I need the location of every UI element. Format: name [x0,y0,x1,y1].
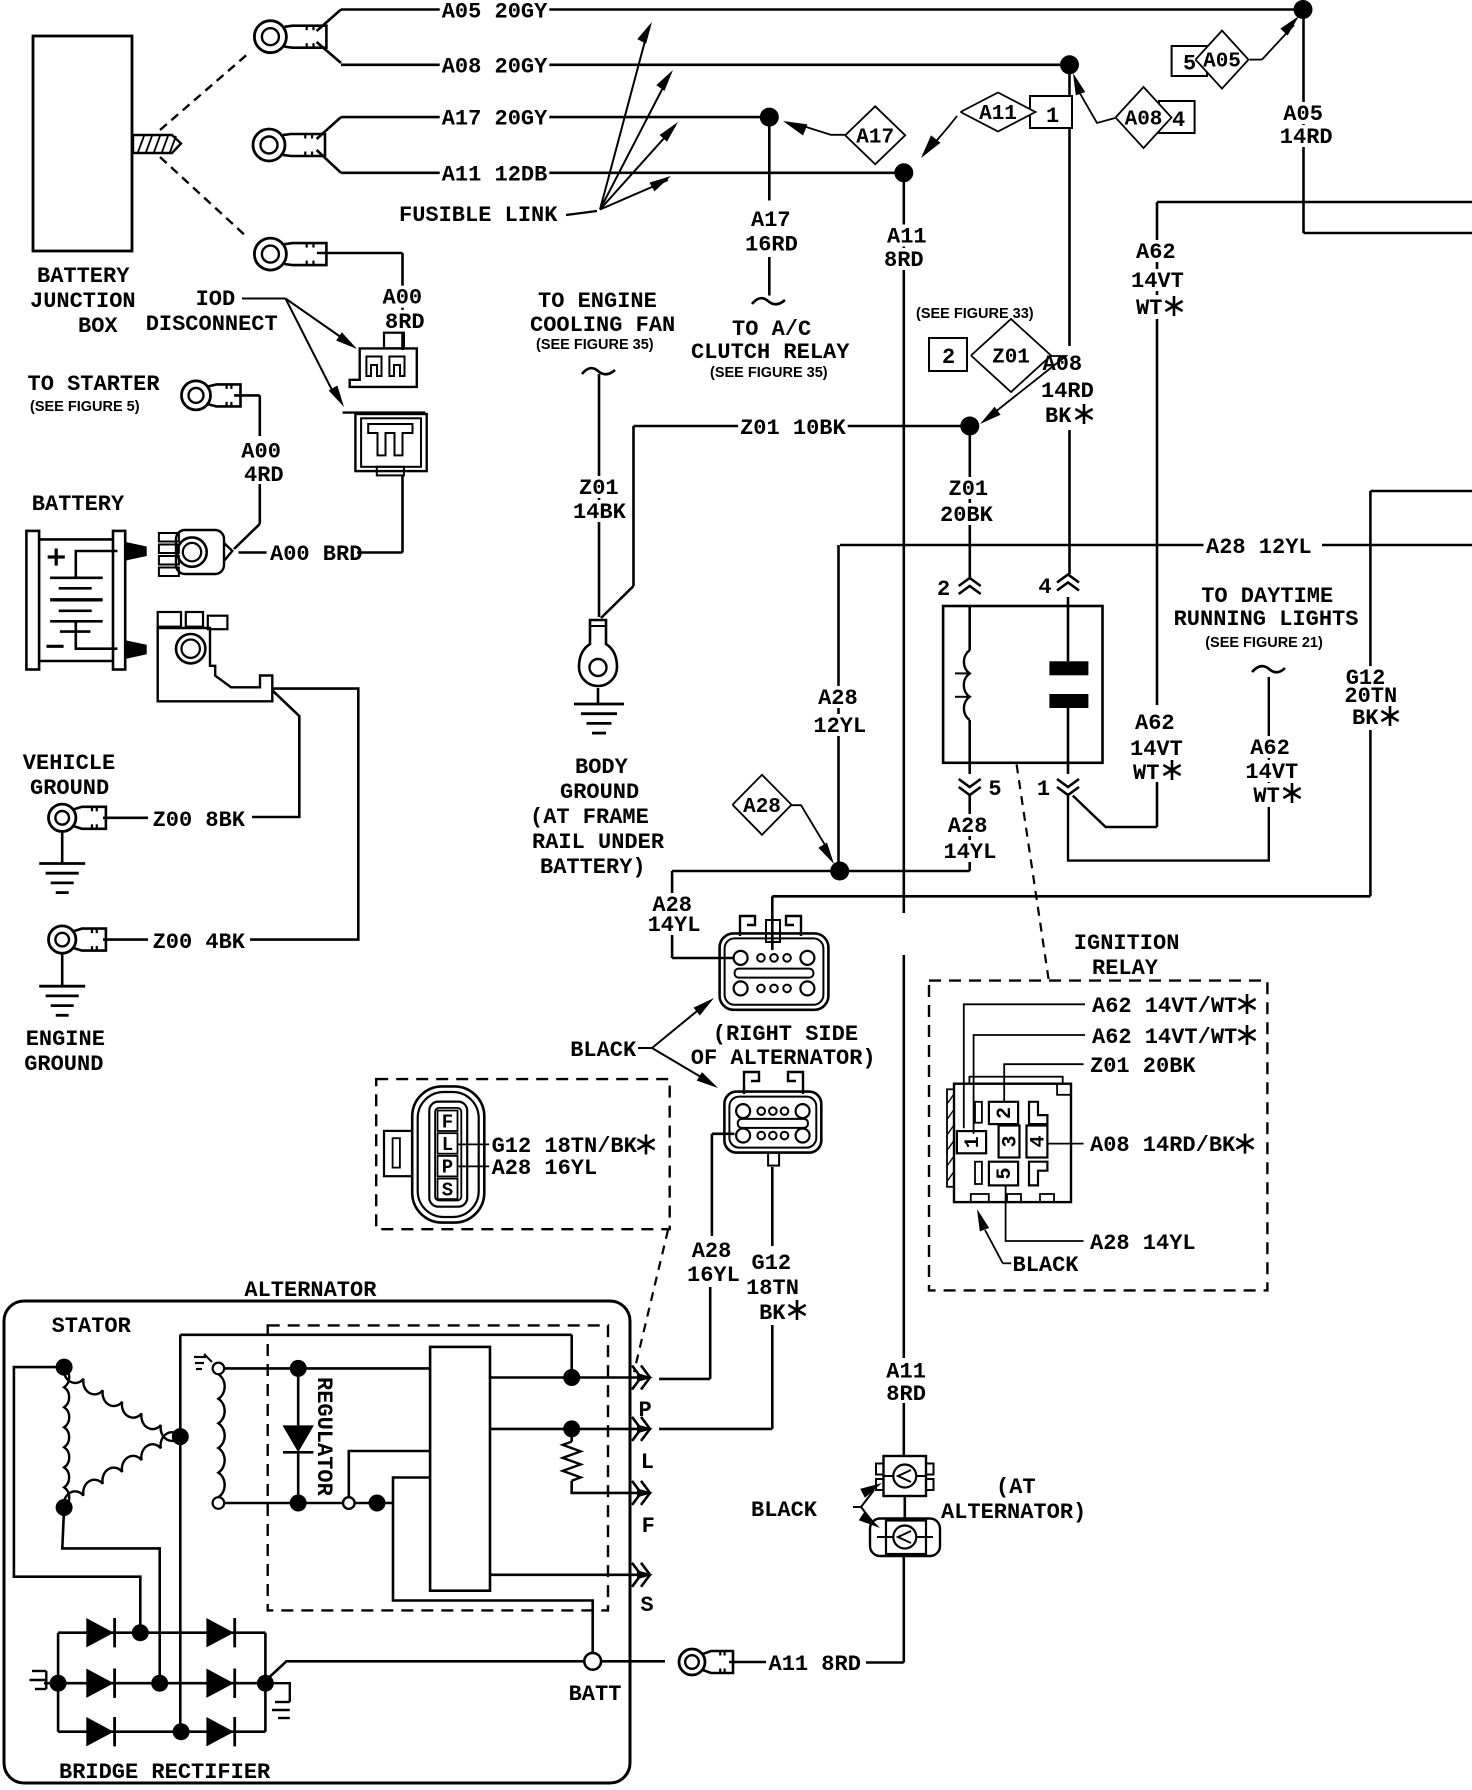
svg-text:STATOR: STATOR [52,1314,132,1339]
svg-text:4RD: 4RD [244,463,284,488]
svg-text:20BK: 20BK [940,503,994,528]
svg-text:TO STARTER: TO STARTER [28,372,161,397]
svg-text:A08: A08 [1043,352,1083,377]
svg-text:A00: A00 [241,440,281,465]
svg-text:(SEE FIGURE 33): (SEE FIGURE 33) [916,306,1034,322]
svg-text:L: L [641,1450,654,1475]
svg-text:BK: BK [759,1301,786,1326]
svg-text:16YL: 16YL [687,1263,740,1288]
svg-text:18TN: 18TN [746,1276,799,1301]
svg-text:14YL: 14YL [648,913,701,938]
svg-text:RELAY: RELAY [1092,956,1159,981]
svg-text:4: 4 [1028,1135,1051,1147]
svg-text:WT: WT [1136,296,1162,321]
svg-text:TO A/C: TO A/C [732,317,811,342]
svg-text:(AT FRAME: (AT FRAME [530,805,649,830]
svg-text:Z01 20BK: Z01 20BK [1090,1054,1196,1079]
svg-text:2: 2 [942,345,955,370]
svg-text:A08 20GY: A08 20GY [442,54,548,79]
svg-text:A28: A28 [818,686,858,711]
svg-text:Z00 8BK: Z00 8BK [153,808,246,833]
svg-text:Z01: Z01 [949,477,989,502]
svg-text:A28: A28 [692,1239,732,1264]
svg-text:A62: A62 [1250,736,1290,761]
svg-text:BOX: BOX [78,314,118,339]
svg-text:BK: BK [1045,404,1072,429]
svg-text:RUNNING LIGHTS: RUNNING LIGHTS [1174,607,1359,632]
svg-text:(AT: (AT [996,1475,1036,1500]
svg-text:A08: A08 [1125,109,1163,132]
svg-text:(SEE FIGURE 35): (SEE FIGURE 35) [536,337,654,353]
svg-text:5: 5 [1183,52,1196,77]
svg-text:BRIDGE RECTIFIER: BRIDGE RECTIFIER [59,1760,271,1785]
svg-text:4: 4 [1038,575,1051,600]
svg-text:A62: A62 [1136,240,1176,265]
svg-text:14BK: 14BK [573,500,627,525]
svg-text:ALTERNATOR): ALTERNATOR) [941,1500,1086,1525]
svg-text:ENGINE: ENGINE [26,1027,105,1052]
svg-text:A11 12DB: A11 12DB [442,162,548,187]
svg-text:A28 12YL: A28 12YL [1206,535,1312,560]
svg-text:RAIL UNDER: RAIL UNDER [532,830,665,855]
svg-text:A11: A11 [887,225,927,250]
svg-text:GROUND: GROUND [30,776,109,801]
svg-text:A05: A05 [1203,51,1241,74]
svg-text:1: 1 [1037,777,1050,802]
svg-text:16RD: 16RD [745,233,798,258]
svg-text:IGNITION: IGNITION [1074,931,1180,956]
svg-text:P: P [442,1157,453,1179]
svg-text:P: P [639,1398,652,1423]
svg-text:A28: A28 [743,796,781,819]
svg-text:COOLING FAN: COOLING FAN [530,313,675,338]
svg-text:A00 BRD: A00 BRD [270,542,362,567]
svg-text:8RD: 8RD [884,248,924,273]
svg-text:BLACK: BLACK [570,1038,637,1063]
svg-text:BODY: BODY [575,755,629,780]
svg-text:BATT: BATT [569,1682,622,1707]
svg-text:(SEE FIGURE 21): (SEE FIGURE 21) [1205,635,1323,651]
svg-text:WT: WT [1253,784,1279,809]
svg-text:2: 2 [994,1107,1017,1119]
svg-text:A11 8RD: A11 8RD [769,1652,861,1677]
svg-text:1: 1 [1046,104,1059,129]
svg-text:A08 14RD/BK: A08 14RD/BK [1090,1133,1236,1158]
svg-text:(SEE FIGURE 35): (SEE FIGURE 35) [710,365,828,381]
svg-text:8RD: 8RD [385,310,425,335]
svg-text:1: 1 [962,1136,985,1148]
svg-text:TO DAYTIME: TO DAYTIME [1201,584,1333,609]
svg-text:Z00 4BK: Z00 4BK [153,930,246,955]
svg-text:BLACK: BLACK [751,1498,818,1523]
svg-text:4: 4 [1172,108,1185,133]
svg-text:(RIGHT SIDE: (RIGHT SIDE [713,1022,858,1047]
svg-text:14RD: 14RD [1280,125,1333,150]
svg-text:S: S [442,1179,453,1201]
svg-text:GROUND: GROUND [24,1052,103,1077]
svg-text:(SEE FIGURE 5): (SEE FIGURE 5) [30,399,140,415]
svg-text:GROUND: GROUND [560,780,639,805]
svg-text:A62 14VT/WT: A62 14VT/WT [1092,994,1237,1019]
svg-text:A11: A11 [886,1360,926,1385]
svg-text:A00: A00 [383,286,423,311]
svg-text:A62 14VT/WT: A62 14VT/WT [1092,1025,1237,1050]
svg-text:WT: WT [1133,761,1159,786]
svg-text:Z01 10BK: Z01 10BK [740,416,846,441]
svg-text:DISCONNECT: DISCONNECT [146,312,278,337]
svg-text:3: 3 [1000,1135,1023,1147]
svg-text:IOD: IOD [196,287,236,312]
svg-text:VEHICLE: VEHICLE [23,751,115,776]
svg-text:A62: A62 [1135,711,1175,736]
svg-text:S: S [640,1593,653,1618]
svg-text:F: F [442,1111,453,1133]
svg-text:5: 5 [988,777,1001,802]
svg-text:8RD: 8RD [886,1382,926,1407]
svg-text:CLUTCH RELAY: CLUTCH RELAY [691,340,850,365]
svg-text:REGULATOR: REGULATOR [311,1377,336,1497]
svg-text:5: 5 [994,1167,1017,1179]
svg-text:A05: A05 [1283,102,1323,127]
svg-text:Z01: Z01 [992,347,1030,370]
svg-text:2: 2 [937,577,950,602]
svg-text:A11: A11 [979,103,1017,126]
svg-text:BATTERY): BATTERY) [540,855,646,880]
svg-text:14VT: 14VT [1245,760,1298,785]
svg-text:TO ENGINE: TO ENGINE [538,289,657,314]
svg-text:G12: G12 [752,1251,792,1276]
svg-text:BATTERY: BATTERY [32,492,125,517]
svg-text:JUNCTION: JUNCTION [30,289,136,314]
svg-text:A17: A17 [751,208,791,233]
svg-text:A28 14YL: A28 14YL [1090,1231,1196,1256]
svg-text:Z01: Z01 [579,476,619,501]
svg-text:L: L [442,1134,453,1156]
svg-text:A28: A28 [948,814,988,839]
svg-text:OF ALTERNATOR): OF ALTERNATOR) [691,1046,876,1071]
svg-text:F: F [642,1514,655,1539]
svg-text:12YL: 12YL [813,714,866,739]
svg-text:A28 16YL: A28 16YL [492,1156,598,1181]
svg-text:BK: BK [1352,706,1379,731]
svg-text:A17 20GY: A17 20GY [442,107,548,132]
svg-text:BATTERY: BATTERY [37,264,130,289]
svg-text:FUSIBLE LINK: FUSIBLE LINK [399,203,558,228]
svg-text:A05 20GY: A05 20GY [442,0,548,25]
svg-text:A17: A17 [856,126,894,149]
svg-text:14RD: 14RD [1041,379,1094,404]
svg-text:ALTERNATOR: ALTERNATOR [244,1278,377,1303]
svg-text:14YL: 14YL [944,840,997,865]
svg-text:14VT: 14VT [1131,269,1184,294]
svg-text:BLACK: BLACK [1013,1253,1080,1278]
